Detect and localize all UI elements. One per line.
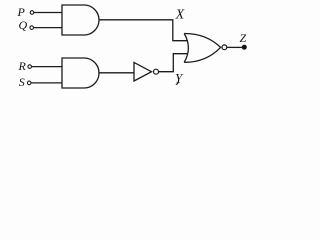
- svg-text:S: S: [19, 75, 25, 89]
- svg-text:R: R: [18, 59, 27, 73]
- svg-text:Q: Q: [19, 18, 28, 32]
- svg-text:X: X: [175, 8, 185, 23]
- svg-text:Z: Z: [240, 31, 247, 45]
- svg-text:P: P: [17, 5, 26, 19]
